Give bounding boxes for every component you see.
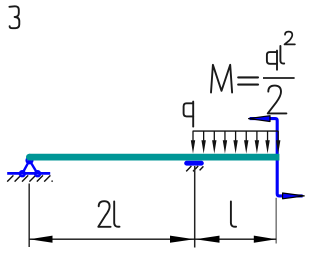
dimension label l bbox=[231, 201, 236, 226]
moment arrow (blue bent line, applied couple M) bbox=[250, 119, 303, 196]
middle roller support (blue) : roller bar bbox=[187, 161, 202, 166]
formula : equals sign bbox=[238, 77, 258, 84]
dimension arrowhead right of middle (points left) bbox=[195, 236, 219, 243]
middle roller support (blue) : hatching bbox=[186, 166, 203, 171]
formula : numerator l bbox=[280, 46, 284, 64]
dimension label 2l bbox=[98, 201, 119, 227]
beam (teal) bbox=[29, 154, 279, 161]
left support pinned (blue) : hatching bbox=[7, 175, 52, 181]
dimension line bbox=[29, 238, 276, 240]
formula : fraction bar bbox=[263, 77, 295, 79]
label q (load intensity) bbox=[184, 102, 194, 127]
formula : exponent 2 bbox=[285, 32, 295, 45]
formula : denominator 2 bbox=[268, 86, 287, 114]
formula : numerator q bbox=[267, 51, 277, 70]
extension line right (x=276, gray) bbox=[275, 198, 277, 244]
left support pinned (blue) : ground line, legs, pins bbox=[7, 157, 50, 176]
distributed load q : top line bbox=[193, 130, 279, 132]
moment arrowhead bottom (points right) bbox=[283, 193, 305, 199]
label 3 (problem number) bbox=[9, 6, 19, 28]
distributed load q : arrows bbox=[191, 131, 281, 154]
dimension arrowhead at x=276 (points right) bbox=[254, 236, 276, 243]
extension line left (x=29) bbox=[28, 184, 30, 248]
moment arrowhead top (points left) bbox=[249, 116, 270, 122]
dimension arrowhead left of middle (points right) bbox=[170, 236, 194, 243]
extension line middle (x=195) bbox=[194, 166, 196, 248]
formula M = q l^2 / 2 : letter M bbox=[211, 65, 232, 93]
dimension arrowhead at x=29 (points left) bbox=[29, 236, 52, 243]
